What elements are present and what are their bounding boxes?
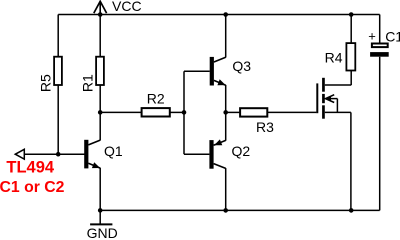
svg-text:Q3: Q3: [232, 58, 251, 74]
svg-text:Q2: Q2: [232, 143, 251, 159]
node junction dot emitters/R3: [223, 110, 228, 115]
input arrow from TL494: [15, 149, 24, 159]
node junction dot R4/top rail: [349, 12, 354, 17]
node junction dot Q3 collector/top rail: [223, 12, 228, 17]
wire Q3 emitter to node: [225, 85, 227, 113]
wire Q1 emitter to bottom rail: [99, 168, 101, 211]
wire top VCC rail: [58, 14, 380, 16]
wire MOSFET source to bottom rail: [350, 112, 352, 210]
transistor Q3: [210, 57, 226, 86]
wire R3 right lead to MOSFET gate: [267, 111, 316, 113]
transistor Q1: [84, 140, 100, 169]
wire bottom ground rail: [100, 209, 380, 211]
svg-text:GND: GND: [87, 225, 118, 238]
node junction dot GND: [98, 208, 103, 213]
wire Q3 collector to top rail: [225, 15, 227, 58]
transistor Q2: [209, 139, 225, 168]
wire R2 left lead: [100, 111, 141, 113]
resistor R3: [240, 108, 267, 116]
node junction dot MOSFET source/bottom rail: [349, 208, 354, 213]
resistor R4: [346, 43, 355, 70]
resistor R5: [54, 57, 62, 85]
svg-text:VCC: VCC: [112, 0, 142, 14]
svg-text:R3: R3: [256, 119, 274, 135]
wire R4 branch from rail to MOSFET drain: [350, 15, 352, 86]
svg-text:TL494: TL494: [6, 158, 55, 176]
svg-text:Q1: Q1: [104, 143, 123, 159]
capacitor C1: [370, 44, 389, 57]
svg-text:R2: R2: [147, 91, 165, 107]
transistor M1 MOSFET: [317, 78, 351, 119]
wire left branch through R5 down to Q1 base node: [57, 15, 59, 155]
VCC symbol arrow: [94, 1, 107, 14]
svg-text:R4: R4: [325, 49, 343, 65]
ground symbol: [90, 210, 112, 224]
svg-text:R5: R5: [37, 74, 53, 92]
wire common base vertical line: [183, 71, 185, 154]
wire R2 right lead: [170, 111, 184, 113]
node junction dot R1/R2/Q1 collector: [98, 110, 103, 115]
node junction dot R2/base line: [182, 110, 187, 115]
svg-text:C1 or C2: C1 or C2: [0, 179, 65, 196]
wire Q2 base lead: [184, 153, 209, 155]
wire R1 branch from rail to Q1 collector: [99, 15, 101, 141]
resistor R1: [96, 57, 104, 85]
node junction dot VCC/R1: [98, 12, 103, 17]
wire Q2 emitter to node: [225, 112, 227, 140]
wire Q1 base lead from input arrow: [24, 153, 85, 155]
node junction dot R5/Q1 base: [56, 152, 61, 157]
wire right rail to capacitor C1 top: [379, 15, 381, 43]
svg-text:R1: R1: [79, 74, 95, 92]
node junction dot Q2 collector/bottom rail: [223, 208, 228, 213]
svg-text:+: +: [368, 29, 376, 44]
svg-text:C1: C1: [385, 29, 400, 45]
wire Q2 collector to bottom rail: [225, 168, 227, 210]
wire node to R3 left lead: [226, 111, 240, 113]
wire capacitor C1 bottom to bottom rail: [379, 57, 381, 211]
wire Q3 base lead: [184, 70, 210, 72]
resistor R2: [142, 108, 170, 116]
